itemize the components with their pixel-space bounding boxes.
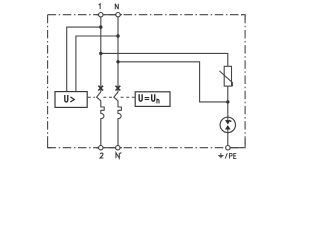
wire: branch from L1 to U> box (left input) (67, 27, 101, 92)
label PE: earth symbol (218, 153, 223, 158)
node: junction dot on N at y=61.8 (116, 60, 119, 63)
terminal 2 (bottom) (99, 146, 103, 150)
terminal 1 (top) (99, 13, 103, 17)
box U=Un : status indication unit (135, 92, 170, 107)
wire: varistor bottom to node (227, 86, 229, 117)
wire: N feed from terminal N down to contact (117, 15, 119, 92)
varistor MOV: body (224, 66, 231, 86)
spark gap bottom electrode (226, 126, 231, 130)
gas discharge tube / spark gap: circle (220, 117, 235, 132)
breaker pole 2: contact chevron + thermal disconnector squiggle + lead (114, 92, 122, 146)
wire: branch from N to varistor bottom node (118, 62, 228, 102)
label terminal N (115, 4, 118, 10)
label PE: / PE text (225, 153, 236, 158)
node: junction dot below varistor (226, 100, 229, 103)
node: junction dot on N at y=36 (116, 34, 119, 37)
wire: branch from L1 to varistor top (101, 53, 228, 66)
varistor MOV: diagonal with foot (219, 71, 232, 87)
spark gap top electrode (227, 117, 229, 120)
enclosure dash-dot border (48, 15, 246, 148)
op box U> : overvoltage monitoring unit (55, 92, 87, 108)
wire: branch from N to U> box (right input) (76, 36, 118, 92)
terminal PE (bottom right) (226, 146, 230, 150)
terminal N (top) (116, 13, 120, 17)
breaker pole 1: x cross (98, 86, 103, 91)
label terminal 1 (99, 4, 100, 9)
breaker pole 1: contact chevron + thermal disconnector squiggle + lead (97, 92, 105, 146)
terminal N' (bottom) (116, 146, 120, 150)
breaker pole 2: x cross (116, 86, 121, 91)
node: junction dot on L1 at y=53.4 (99, 52, 102, 55)
label terminal N' (116, 153, 119, 159)
node: junction dot on L1 at y=27.1 (99, 25, 102, 28)
gas filling dot (230, 120, 232, 122)
mechanical linkage dashed line (88, 96, 135, 98)
wire: spark gap to PE terminal (227, 133, 229, 146)
label terminal 2 (100, 153, 103, 158)
wire: L1 feed from terminal 1 down to contact (100, 15, 102, 92)
